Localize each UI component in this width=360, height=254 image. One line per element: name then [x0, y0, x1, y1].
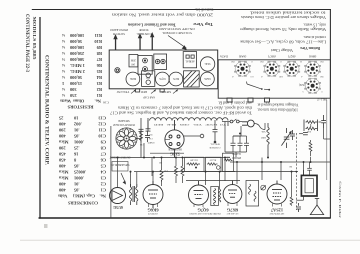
- svg-text:R1: R1: [97, 93, 102, 98]
- svg-text:Mica: Mica: [58, 176, 68, 181]
- padder trimmer: [281, 128, 291, 148]
- small pointer arrows below box: [131, 90, 178, 94]
- power switch contacts: [222, 119, 249, 158]
- svg-text:450: 450: [58, 152, 65, 157]
- svg-text:15,000: 15,000: [69, 81, 82, 86]
- line filter resistors: [306, 121, 318, 124]
- socket (6K7): [264, 61, 279, 76]
- line filter caps: [303, 115, 326, 135]
- oscillator coil (bold box): [296, 175, 317, 200]
- svg-text:50,000: 50,000: [69, 39, 82, 44]
- svg-text:(6Q7): (6Q7): [288, 55, 295, 59]
- wire: schematic left edge: [110, 126, 112, 218]
- resistor R (right bottom): [290, 196, 293, 206]
- svg-text:400: 400: [58, 188, 65, 193]
- svg-text:R3: R3: [96, 81, 102, 86]
- oscillator coil (vertical): [267, 123, 269, 158]
- svg-text:5Z4G: 5Z4G: [204, 62, 210, 65]
- faint page crease: [20, 239, 360, 241]
- candohm resistor box 2: [206, 157, 222, 171]
- svg-text:¼: ¼: [62, 87, 65, 92]
- socket (5Z4): [305, 78, 320, 93]
- layout socket 6K6G: [126, 72, 140, 86]
- left caps near speaker: [139, 118, 151, 158]
- pointer arrow 2 (tone control): [139, 38, 140, 50]
- svg-text:(6A8): (6A8): [239, 55, 246, 59]
- svg-text:8 MFD: 8 MFD: [147, 141, 154, 143]
- svg-text:500,000: 500,000: [69, 57, 84, 62]
- wire: bus H2: [111, 157, 230, 159]
- coil labels: [260, 130, 265, 139]
- wire: vert v262: [261, 158, 263, 181]
- svg-text:6U5G: 6U5G: [113, 205, 123, 209]
- svg-text:¼: ¼: [62, 75, 65, 80]
- svg-text:20M: 20M: [130, 59, 136, 62]
- svg-text:MODELS 85,B85: MODELS 85,B85: [32, 17, 37, 61]
- phono label: [232, 152, 241, 159]
- wire: vert v237: [236, 162, 238, 184]
- svg-text:(6K6): (6K6): [309, 55, 316, 59]
- svg-text:Voltages shown are positive D.: Voltages shown are positive D.C. from ch…: [241, 15, 326, 20]
- svg-text:R5: R5: [96, 69, 102, 74]
- svg-text:C4: C4: [100, 170, 106, 175]
- field coil (wavy winding): [150, 118, 228, 121]
- svg-text:and points A and B.: and points A and B.: [218, 101, 252, 105]
- svg-text:Voltages marked tapped at: Voltages marked tapped at: [258, 103, 299, 107]
- vertical rule (binding edge): [39, 17, 41, 219]
- padder boxlet: [129, 55, 138, 67]
- candohm labels: [189, 155, 229, 160]
- svg-text:Mica: Mica: [58, 170, 68, 175]
- svg-text:YELLOW: YELLOW: [117, 90, 130, 94]
- svg-text:DATA: DATA: [219, 55, 228, 59]
- layout socket 6Q7G: [156, 72, 170, 86]
- wire: aerial lead line: [326, 100, 328, 180]
- svg-text:.0001: .0001: [74, 176, 84, 181]
- wire: output trans verts: [130, 172, 132, 187]
- chassis layout caption labels (rotated 180): [109, 27, 195, 100]
- svg-text:.01: .01: [74, 128, 80, 133]
- svg-text:OUTPUT: OUTPUT: [148, 212, 158, 215]
- 6Q7G label: [189, 208, 220, 215]
- layout note text (rotated 180): [112, 8, 214, 28]
- layout socket 6A8G: [201, 72, 215, 86]
- svg-text:Watts: Watts: [60, 99, 71, 104]
- svg-text:¼: ¼: [62, 33, 65, 38]
- resistor (vert) mid: [160, 168, 163, 182]
- svg-text:6K7G: 6K7G: [173, 77, 179, 80]
- diagonal pointer arrow: [168, 36, 186, 49]
- svg-text:¼: ¼: [62, 45, 65, 50]
- svg-text:tuned in.: tuned in.: [195, 8, 214, 13]
- filter cap tap: [214, 120, 216, 130]
- svg-text:C1: C1: [101, 188, 106, 193]
- rectifier plate lead: [184, 120, 228, 143]
- socket (6Q7): [284, 61, 299, 76]
- 2nd if trimmer box: [142, 71, 155, 87]
- wire: vert v281: [280, 162, 282, 180]
- svg-text:R8: R8: [96, 51, 102, 56]
- resistor R14 (vert zigzag): [140, 130, 143, 142]
- gang trimmer box 1: [138, 55, 152, 74]
- svg-text:PHONO-RADIO: PHONO-RADIO: [109, 28, 128, 32]
- speaker plug pointer: [247, 82, 269, 90]
- 12SA7 label: [269, 208, 284, 215]
- svg-text:R11: R11: [95, 33, 102, 38]
- socket name labels (rotated 180): [219, 55, 327, 101]
- svg-text:R4: R4: [96, 75, 102, 80]
- socket voltage figures (tiny gray marks): [230, 60, 323, 92]
- svg-text:(6K7): (6K7): [268, 55, 275, 59]
- line filter end bars: [303, 120, 305, 132]
- 6K6G label: [147, 208, 159, 215]
- svg-text:control at max.: control at max.: [303, 35, 326, 40]
- wire: vert v303: [303, 162, 305, 175]
- grid trimmer: [261, 185, 266, 190]
- tube pin stubs: [149, 140, 282, 208]
- svg-text:SWITCH: SWITCH: [112, 32, 125, 36]
- svg-text:OUTPUT SOCKET: OUTPUT SOCKET: [109, 155, 130, 158]
- svg-text:Ohms: Ohms: [73, 99, 85, 104]
- svg-text:AERIAL: AERIAL: [185, 60, 195, 63]
- svg-text:C9: C9: [100, 140, 106, 145]
- wire: vert v225: [224, 158, 226, 182]
- speaker plug box: [112, 162, 128, 172]
- svg-text:IN HIGH VOLTAGE: IN HIGH VOLTAGE: [112, 123, 135, 126]
- svg-text:¼: ¼: [62, 93, 65, 98]
- svg-text:450: 450: [58, 158, 65, 163]
- svg-text:R2: R2: [97, 87, 102, 92]
- resistor pair verticals: [175, 164, 178, 183]
- AC plug: [242, 120, 265, 129]
- antenna symbol: [310, 199, 323, 215]
- svg-text:DIODE DET-AVC-1ST AUDIO: DIODE DET-AVC-1ST AUDIO: [189, 212, 220, 215]
- svg-text:BELL-17: BELL-17: [316, 98, 327, 101]
- svg-text:.05: .05: [73, 134, 79, 139]
- svg-text:No.: No.: [100, 194, 106, 199]
- svg-text:Voltage Chart: Voltage Chart: [270, 48, 293, 53]
- wire: bus H5 right: [225, 171, 298, 173]
- svg-text:1ST DET-OSC: 1ST DET-OSC: [269, 212, 284, 215]
- small arrow to eye: [121, 173, 126, 183]
- chassis outline box: [109, 50, 218, 89]
- svg-text:C13: C13: [98, 116, 106, 121]
- svg-text:R7: R7: [96, 57, 102, 62]
- svg-text:SPEAKER PLUG: SPEAKER PLUG: [110, 163, 129, 166]
- svg-text:R9: R9: [96, 45, 102, 50]
- pointer arrow 3 (phono-radio switch): [152, 37, 153, 50]
- misc small component labels: [139, 130, 311, 172]
- svg-text:SPEAKER: SPEAKER: [118, 119, 130, 122]
- 2nd IF transformer: [186, 172, 240, 206]
- voltage chart box: [218, 60, 330, 98]
- svg-text:1 MEG.: 1 MEG.: [70, 63, 85, 68]
- socket (6A8): [235, 61, 250, 76]
- pilot light: [115, 68, 120, 73]
- svg-text:.05: .05: [73, 164, 79, 169]
- svg-text:R10: R10: [94, 39, 102, 44]
- detector tube 6Q7G: [189, 181, 209, 205]
- svg-text:.002: .002: [74, 122, 82, 127]
- speaker label: [109, 119, 135, 166]
- speaker (rosette): [116, 128, 137, 149]
- svg-text:6K6G: 6K6G: [130, 77, 136, 80]
- svg-text:250,000: 250,000: [69, 51, 84, 56]
- svg-text:400: 400: [58, 164, 65, 169]
- svg-text:CONDENSERS: CONDENSERS: [68, 201, 98, 206]
- svg-text:CONTROL: CONTROL: [136, 32, 151, 36]
- layout socket labels (tiny, rotated): [130, 59, 211, 81]
- rectifier tube 5Z4G: [165, 120, 184, 158]
- eye tube 6U5G: [110, 188, 126, 204]
- svg-text:Bottom View: Bottom View: [300, 46, 320, 51]
- svg-text:C6: C6: [100, 158, 106, 163]
- svg-text:1: 1: [62, 81, 64, 86]
- wire: right bus taps: [323, 128, 325, 139]
- IF tube 6K7G: [223, 181, 242, 204]
- svg-text:RED: RED: [261, 136, 266, 139]
- svg-text:to socket terminal unless note: to socket terminal unless noted.: [250, 11, 326, 16]
- layout socket 6K7G: [169, 72, 183, 86]
- svg-text:RED: RED: [140, 90, 147, 94]
- svg-text:RADIO: RADIO: [232, 152, 240, 155]
- svg-text:RESISTORS: RESISTORS: [67, 105, 93, 110]
- svg-text:RECTIFIER: RECTIFIER: [168, 148, 181, 151]
- junction dots: [117, 133, 312, 173]
- svg-text:200: 200: [58, 128, 65, 133]
- svg-text:CONTINENTAL PAGE 22-3: CONTINENTAL PAGE 22-3: [24, 14, 29, 73]
- svg-text:R6: R6: [96, 63, 102, 68]
- wire: plug drop: [264, 123, 266, 130]
- svg-text:C5: C5: [100, 164, 106, 169]
- svg-text:¼: ¼: [62, 69, 65, 74]
- svg-text:©John F. Rider: ©John F. Rider: [338, 181, 343, 220]
- if trimmer box 2: [154, 54, 167, 69]
- svg-text:¼: ¼: [62, 63, 65, 68]
- svg-text:TONE: TONE: [139, 28, 149, 32]
- 6K7G label: [226, 208, 238, 215]
- svg-text:Top View: Top View: [193, 22, 213, 27]
- svg-text:(5Z4): (5Z4): [299, 83, 305, 86]
- svg-text:VOLUME CONTROL: VOLUME CONTROL: [162, 31, 192, 35]
- svg-text:400: 400: [58, 122, 65, 127]
- right border bus: [329, 9, 331, 218]
- svg-text:250: 250: [69, 93, 76, 98]
- wire: 6K6 grid vert: [152, 172, 154, 185]
- svg-text:Tone and Trimmer Location: Tone and Trimmer Location: [128, 22, 176, 27]
- svg-text:400: 400: [58, 182, 65, 187]
- wire: eye tube vert: [117, 158, 119, 188]
- candohm resistor box 1: [185, 153, 234, 171]
- layout socket 5Z4G: [200, 57, 214, 71]
- capacitor C21: [309, 162, 311, 168]
- svg-text:2 MEG.: 2 MEG.: [70, 69, 85, 74]
- cap label: [209, 142, 220, 149]
- output transformer: [129, 184, 138, 205]
- svg-text:No.: No.: [95, 99, 101, 104]
- svg-text:6A8 CAP: 6A8 CAP: [143, 96, 155, 100]
- capacitor C18: [145, 131, 150, 142]
- svg-text:¼: ¼: [62, 51, 65, 56]
- svg-text:R15 400: R15 400: [189, 158, 197, 160]
- svg-text:I.F. 456 KC: I.F. 456 KC: [226, 212, 238, 215]
- svg-text:Mica: Mica: [58, 140, 68, 145]
- svg-text:100,000: 100,000: [69, 45, 84, 50]
- wire: bus H3 right: [230, 161, 330, 163]
- cap values: [147, 133, 154, 143]
- candohm resistor box 3: [223, 153, 234, 171]
- svg-text:200: 200: [58, 146, 65, 151]
- bottom border rule: [39, 217, 331, 219]
- svg-text:METAL: METAL: [161, 90, 171, 94]
- svg-text:100,000: 100,000: [69, 33, 84, 38]
- chart mounting feet: [227, 98, 270, 102]
- svg-text:Cap. (Mfd.): Cap. (Mfd.): [72, 194, 95, 199]
- capacitor bottom right: [296, 203, 301, 212]
- wire: speaker lead: [135, 138, 141, 140]
- svg-text:C11: C11: [99, 128, 106, 133]
- svg-text:C10: C10: [98, 134, 106, 139]
- svg-text:¼: ¼: [62, 39, 65, 44]
- svg-text:.0001: .0001: [74, 140, 84, 145]
- output tube 6K6G: [143, 181, 163, 208]
- svg-text:SPECIAL: SPECIAL: [210, 142, 220, 145]
- svg-text:.05: .05: [73, 188, 79, 193]
- gang dashed line: [295, 133, 297, 210]
- svg-text:400: 400: [58, 134, 65, 139]
- rectifier label: [168, 148, 181, 157]
- svg-text:C7: C7: [100, 152, 106, 157]
- bus H4b: [134, 171, 235, 173]
- svg-text:C16: C16: [103, 101, 109, 105]
- svg-text:C8: C8: [100, 146, 106, 151]
- converter tube 12SA7: [267, 181, 287, 205]
- wire: vert v144: [143, 143, 145, 158]
- svg-text:.01: .01: [74, 182, 80, 187]
- pointer arrow 1 (volume control): [113, 32, 154, 50]
- svg-text:Volts: Volts: [58, 194, 68, 199]
- svg-text:C12: C12: [98, 122, 106, 127]
- svg-text:.00025: .00025: [73, 170, 86, 175]
- aerial trimmer box: [183, 52, 196, 68]
- power transformer (hatched): [184, 71, 200, 87]
- svg-text:CONTINENTAL RADIO & TELEV. COR: CONTINENTAL RADIO & TELEV. CORP.: [43, 55, 48, 165]
- svg-text:YEL: YEL: [260, 130, 265, 133]
- 1st IF transformer: [246, 181, 259, 207]
- svg-text:PHONO: PHONO: [232, 156, 241, 159]
- top rule: [32, 9, 331, 11]
- socket (6K6): [305, 61, 320, 76]
- svg-text:C3: C3: [100, 176, 106, 181]
- page tab mark: [44, 224, 48, 228]
- svg-text:300: 300: [69, 87, 76, 92]
- caps C15 C16 to bus: [290, 130, 295, 140]
- svg-text:R14 30: R14 30: [209, 158, 216, 160]
- resistor right vert: [309, 140, 312, 156]
- svg-text:6Q7G: 6Q7G: [159, 77, 165, 80]
- svg-text:.25: .25: [73, 146, 79, 151]
- wire: bus H1: [150, 152, 184, 154]
- svg-text:C2: C2: [101, 182, 106, 187]
- svg-text:6A8G: 6A8G: [204, 77, 210, 80]
- svg-text:5Z4G: 5Z4G: [170, 152, 180, 157]
- svg-text:50,000: 50,000: [69, 75, 82, 80]
- chassis mounting tabs: [136, 89, 140, 92]
- svg-text:COUPLER: COUPLER: [209, 146, 220, 149]
- field coil drop: [227, 122, 229, 126]
- phono caps C15 C16: [232, 136, 234, 143]
- vert x152: [151, 158, 153, 177]
